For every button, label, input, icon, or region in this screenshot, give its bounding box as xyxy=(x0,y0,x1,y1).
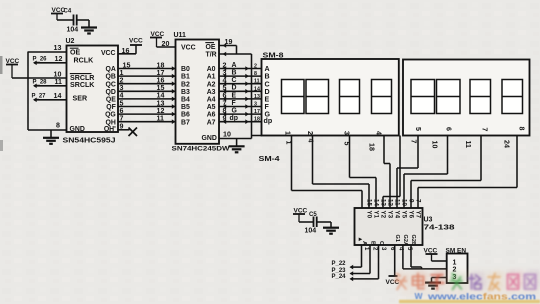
wire SM EN pin3 to ground xyxy=(432,278,447,283)
svg-text:A2: A2 xyxy=(207,81,216,88)
display module SM-8 block 1 xyxy=(262,53,399,136)
svg-text:P_24: P_24 xyxy=(332,274,347,280)
svg-text:10: 10 xyxy=(223,131,231,139)
svg-text:B1: B1 xyxy=(181,74,190,81)
svg-text:11: 11 xyxy=(157,115,165,123)
wire U3 G1 to VCC xyxy=(394,245,396,275)
node VCC (U3 G1, inverted) xyxy=(386,276,400,286)
svg-text:5: 5 xyxy=(343,142,351,146)
wire U3 G2A to SM EN pin2 xyxy=(403,245,447,269)
seven-segment digit 5 xyxy=(411,80,435,114)
svg-text:2: 2 xyxy=(306,131,314,135)
svg-text:1: 1 xyxy=(284,131,292,135)
svg-text:B5: B5 xyxy=(181,104,190,111)
svg-text:Y4: Y4 xyxy=(393,211,400,219)
svg-text:12: 12 xyxy=(387,199,394,206)
svg-text:VCC: VCC xyxy=(129,38,143,45)
label SM-4 xyxy=(259,156,280,163)
svg-text:E: E xyxy=(232,92,237,99)
svg-text:15: 15 xyxy=(366,199,373,206)
svg-text:A7: A7 xyxy=(207,119,216,126)
svg-text:QA: QA xyxy=(105,66,115,73)
svg-text:11: 11 xyxy=(254,79,260,85)
svg-text:13: 13 xyxy=(54,44,62,52)
svg-text:11: 11 xyxy=(55,78,63,86)
svg-text:10: 10 xyxy=(431,141,439,149)
svg-text:2: 2 xyxy=(254,64,257,70)
wire digit2 pin4 to U3 Y1 xyxy=(307,136,370,185)
svg-text:7: 7 xyxy=(410,140,418,144)
wire P_24 to U3 C xyxy=(332,245,379,281)
capacitor C4 xyxy=(51,7,89,34)
svg-text:SN74HC245DW: SN74HC245DW xyxy=(172,145,231,152)
watermark underline band xyxy=(399,300,540,303)
svg-text:13: 13 xyxy=(380,199,387,206)
watermark logo xyxy=(395,274,536,291)
capacitor C5 xyxy=(293,208,331,235)
wire T/R net horizontal under SM-8 xyxy=(252,135,263,137)
svg-text:18: 18 xyxy=(254,117,260,123)
wire U11 A3 to display segment D xyxy=(219,84,262,93)
svg-text:P_22: P_22 xyxy=(332,261,347,267)
svg-text:7: 7 xyxy=(481,128,489,132)
svg-text:9: 9 xyxy=(223,115,227,123)
svg-text:104: 104 xyxy=(67,27,79,34)
svg-text:12: 12 xyxy=(55,55,63,63)
svg-text:VCC: VCC xyxy=(101,50,116,57)
wire U11 A6 to display segment G xyxy=(219,107,262,116)
wire U3 G2B join xyxy=(411,245,422,269)
svg-text:6: 6 xyxy=(445,127,453,131)
wire U2 QD to U11 B3 xyxy=(118,84,176,93)
svg-text:B: B xyxy=(232,70,237,77)
svg-text:C4: C4 xyxy=(64,9,72,15)
svg-text:8: 8 xyxy=(254,71,257,77)
svg-text:7: 7 xyxy=(415,199,422,203)
wire T/R net drop to U3 xyxy=(383,136,400,197)
wire U11 A1 to display segment B xyxy=(219,69,262,78)
svg-text:D: D xyxy=(232,85,237,92)
seven-segment digit 2 xyxy=(306,80,329,114)
wire vertical bus xyxy=(27,52,29,131)
svg-text:1: 1 xyxy=(453,260,457,267)
svg-text:B3: B3 xyxy=(181,89,190,96)
wire U2 QH' no-connect xyxy=(118,122,137,136)
wire P_26 to pin12 RCLK xyxy=(33,55,67,65)
seven-segment digit 7 xyxy=(470,80,491,114)
svg-text:104: 104 xyxy=(305,228,317,235)
svg-text:dp: dp xyxy=(230,115,238,122)
svg-text:11: 11 xyxy=(394,199,401,206)
svg-text:QH': QH' xyxy=(104,126,116,133)
wire digit8 pin24 to U3 Y7 xyxy=(418,136,517,188)
svg-text:8: 8 xyxy=(56,121,60,129)
wire U11 pin19 OE loop to T/R net xyxy=(219,38,252,56)
wire U2 QA to U11 B0 xyxy=(118,61,176,70)
svg-text:C: C xyxy=(232,77,237,84)
svg-text:Y7: Y7 xyxy=(414,211,421,219)
svg-text:7: 7 xyxy=(120,115,124,123)
svg-text:G2B: G2B xyxy=(410,235,416,247)
U3 bottom pin numbers 6 4 5 xyxy=(389,247,412,251)
seven-segment digit 8 xyxy=(502,80,523,114)
wire U11 A7 to display segment dp xyxy=(219,115,262,124)
IC U3 74-138 decoder xyxy=(355,208,455,246)
ground (C4) xyxy=(81,28,97,34)
ground (U2 pin8) xyxy=(43,138,59,144)
svg-text:GND: GND xyxy=(202,135,217,142)
wire U2 QB to U11 B1 xyxy=(118,69,176,78)
wire U2 QH to U11 B7 xyxy=(118,115,176,124)
wire U2 QE to U11 B4 xyxy=(118,92,176,101)
watermark url text xyxy=(415,291,537,302)
svg-text:SM-4: SM-4 xyxy=(259,156,280,163)
svg-text:15: 15 xyxy=(123,61,131,69)
svg-text:U3: U3 xyxy=(424,217,433,224)
svg-text:Y6: Y6 xyxy=(407,211,414,219)
svg-text:24: 24 xyxy=(503,140,511,148)
svg-text:A0: A0 xyxy=(207,66,216,73)
connector SM EN xyxy=(446,248,468,284)
svg-text:GND: GND xyxy=(70,126,85,133)
svg-text:dp: dp xyxy=(264,117,273,125)
wire U2 QC to U11 B2 xyxy=(118,77,176,86)
scan edge marks xyxy=(0,56,3,151)
svg-text:OE: OE xyxy=(206,44,216,51)
digit index labels 5-8 (rotated) xyxy=(414,127,526,132)
svg-text:Y1: Y1 xyxy=(372,211,379,219)
svg-text:QD: QD xyxy=(105,89,115,96)
svg-text:T/R: T/R xyxy=(206,52,217,59)
svg-text:U11: U11 xyxy=(174,32,187,39)
svg-text:A: A xyxy=(232,62,237,69)
svg-text:B0: B0 xyxy=(181,66,190,73)
svg-text:1: 1 xyxy=(285,141,293,145)
wire P_22 to U3 A xyxy=(332,245,362,269)
wire U2 QF to U11 B5 xyxy=(118,99,176,108)
svg-text:4: 4 xyxy=(307,139,315,143)
svg-text:G2A: G2A xyxy=(402,235,408,247)
ground (C5) xyxy=(323,228,339,234)
svg-text:QB: QB xyxy=(105,74,115,81)
wire U11 pin10 GND xyxy=(219,131,252,146)
wire digit3 pin5 to U3 Y2 xyxy=(343,136,377,178)
ground (SM EN pin3) xyxy=(425,283,441,289)
svg-text:9: 9 xyxy=(408,199,415,203)
svg-text:3: 3 xyxy=(343,131,351,135)
wire VCC rail to bus xyxy=(12,77,28,79)
U3 output pin numbers xyxy=(366,199,422,206)
wire U2 QG to U11 B6 xyxy=(118,107,176,116)
wire T/R net vertical xyxy=(251,54,253,139)
svg-text:B: B xyxy=(370,241,376,245)
svg-text:B6: B6 xyxy=(181,112,190,119)
svg-text:B4: B4 xyxy=(181,97,190,104)
seven-segment digit 1 xyxy=(282,80,305,114)
watermark logo ghost layer xyxy=(398,271,539,288)
svg-text:A5: A5 xyxy=(207,104,216,111)
wire digit4 pin18 to U3 Y3 xyxy=(368,136,391,164)
svg-text:A6: A6 xyxy=(207,112,216,119)
svg-text:G1: G1 xyxy=(394,235,400,242)
svg-text:SER: SER xyxy=(73,95,88,103)
svg-text:QC: QC xyxy=(105,81,115,88)
svg-text:18: 18 xyxy=(368,143,376,151)
wire P_23 to U3 B xyxy=(332,245,371,276)
svg-text:SN54HC595J: SN54HC595J xyxy=(63,138,116,145)
wire P_27 to pin14 SER xyxy=(32,92,67,102)
svg-text:4: 4 xyxy=(375,131,383,135)
svg-text:U2: U2 xyxy=(66,38,75,45)
svg-text:Y2: Y2 xyxy=(379,211,386,219)
svg-text:10: 10 xyxy=(401,199,408,206)
svg-text:Y3: Y3 xyxy=(386,211,393,219)
svg-text:5: 5 xyxy=(414,127,422,131)
node VCC (U2 pin16) xyxy=(118,38,143,56)
svg-text:Y0: Y0 xyxy=(365,211,372,219)
svg-text:14: 14 xyxy=(254,86,260,92)
wire U11 A2 to display segment C xyxy=(219,77,262,86)
svg-text:OE: OE xyxy=(70,49,81,57)
svg-text:►: ► xyxy=(358,237,364,243)
svg-text:A4: A4 xyxy=(207,97,216,104)
U3 output stub wires xyxy=(362,164,418,209)
svg-text:13: 13 xyxy=(254,94,260,100)
svg-text:QG: QG xyxy=(105,112,116,119)
svg-text:14: 14 xyxy=(373,199,380,206)
svg-text:P_26: P_26 xyxy=(33,57,48,63)
wire U11 A0 to display segment A xyxy=(219,61,262,70)
ground (U11 pin10) xyxy=(229,146,245,152)
svg-text:8: 8 xyxy=(518,127,526,131)
svg-text:G: G xyxy=(232,108,237,115)
svg-text:F: F xyxy=(232,100,236,107)
wire digit7 pin11 to U3 Y6 xyxy=(411,136,481,181)
seven-segment digit 6 xyxy=(437,80,461,114)
svg-text:B2: B2 xyxy=(181,81,190,88)
svg-text:SRCLK: SRCLK xyxy=(70,81,95,89)
wire digit5 pin7 to U3 Y4 xyxy=(397,136,418,169)
svg-text:A3: A3 xyxy=(207,89,216,96)
U3 bottom pin numbers 1 2 3 xyxy=(363,247,386,251)
svg-text:74-138: 74-138 xyxy=(424,225,455,232)
digit index labels 1-4 xyxy=(284,131,383,135)
wire digit1 pin1 to U3 Y0 xyxy=(285,136,363,191)
svg-text:P_27: P_27 xyxy=(32,94,47,100)
wire pin8 GND xyxy=(28,121,67,137)
node VCC (U11 pin20) xyxy=(150,31,176,48)
svg-text:3: 3 xyxy=(254,102,257,108)
seven-segment digit 3 xyxy=(340,80,360,114)
wire pin10 SRCLR xyxy=(28,71,67,79)
svg-text:VCC: VCC xyxy=(386,279,400,286)
wire U11 A4 to display segment E xyxy=(219,92,262,101)
svg-text:A1: A1 xyxy=(207,74,216,81)
svg-text:QF: QF xyxy=(106,104,116,111)
svg-text:RCLK: RCLK xyxy=(74,57,95,65)
svg-text:VCC: VCC xyxy=(181,45,196,52)
svg-text:B7: B7 xyxy=(181,119,190,126)
node VCC (left rail) xyxy=(6,58,20,78)
svg-text:QE: QE xyxy=(106,97,116,104)
svg-text:11: 11 xyxy=(464,141,472,149)
svg-text:Y5: Y5 xyxy=(400,211,407,219)
svg-text:P_28: P_28 xyxy=(33,80,48,86)
display module SM-8 block 2 xyxy=(403,60,530,136)
seven-segment digit 4 xyxy=(372,80,392,114)
node VCC (SM EN pin1) xyxy=(424,248,447,262)
wire U11 A5 to display segment F xyxy=(219,99,262,108)
svg-text:17: 17 xyxy=(254,109,260,115)
wire pin13 OE xyxy=(28,44,67,52)
wire digit6 pin10 to U3 Y5 xyxy=(404,136,448,175)
IC U2 SN54HC595J xyxy=(63,38,119,145)
svg-text:14: 14 xyxy=(54,92,62,100)
wire P_28 to pin11 SRCLK xyxy=(33,78,67,88)
IC U11 SN74HC245DW xyxy=(172,32,231,152)
